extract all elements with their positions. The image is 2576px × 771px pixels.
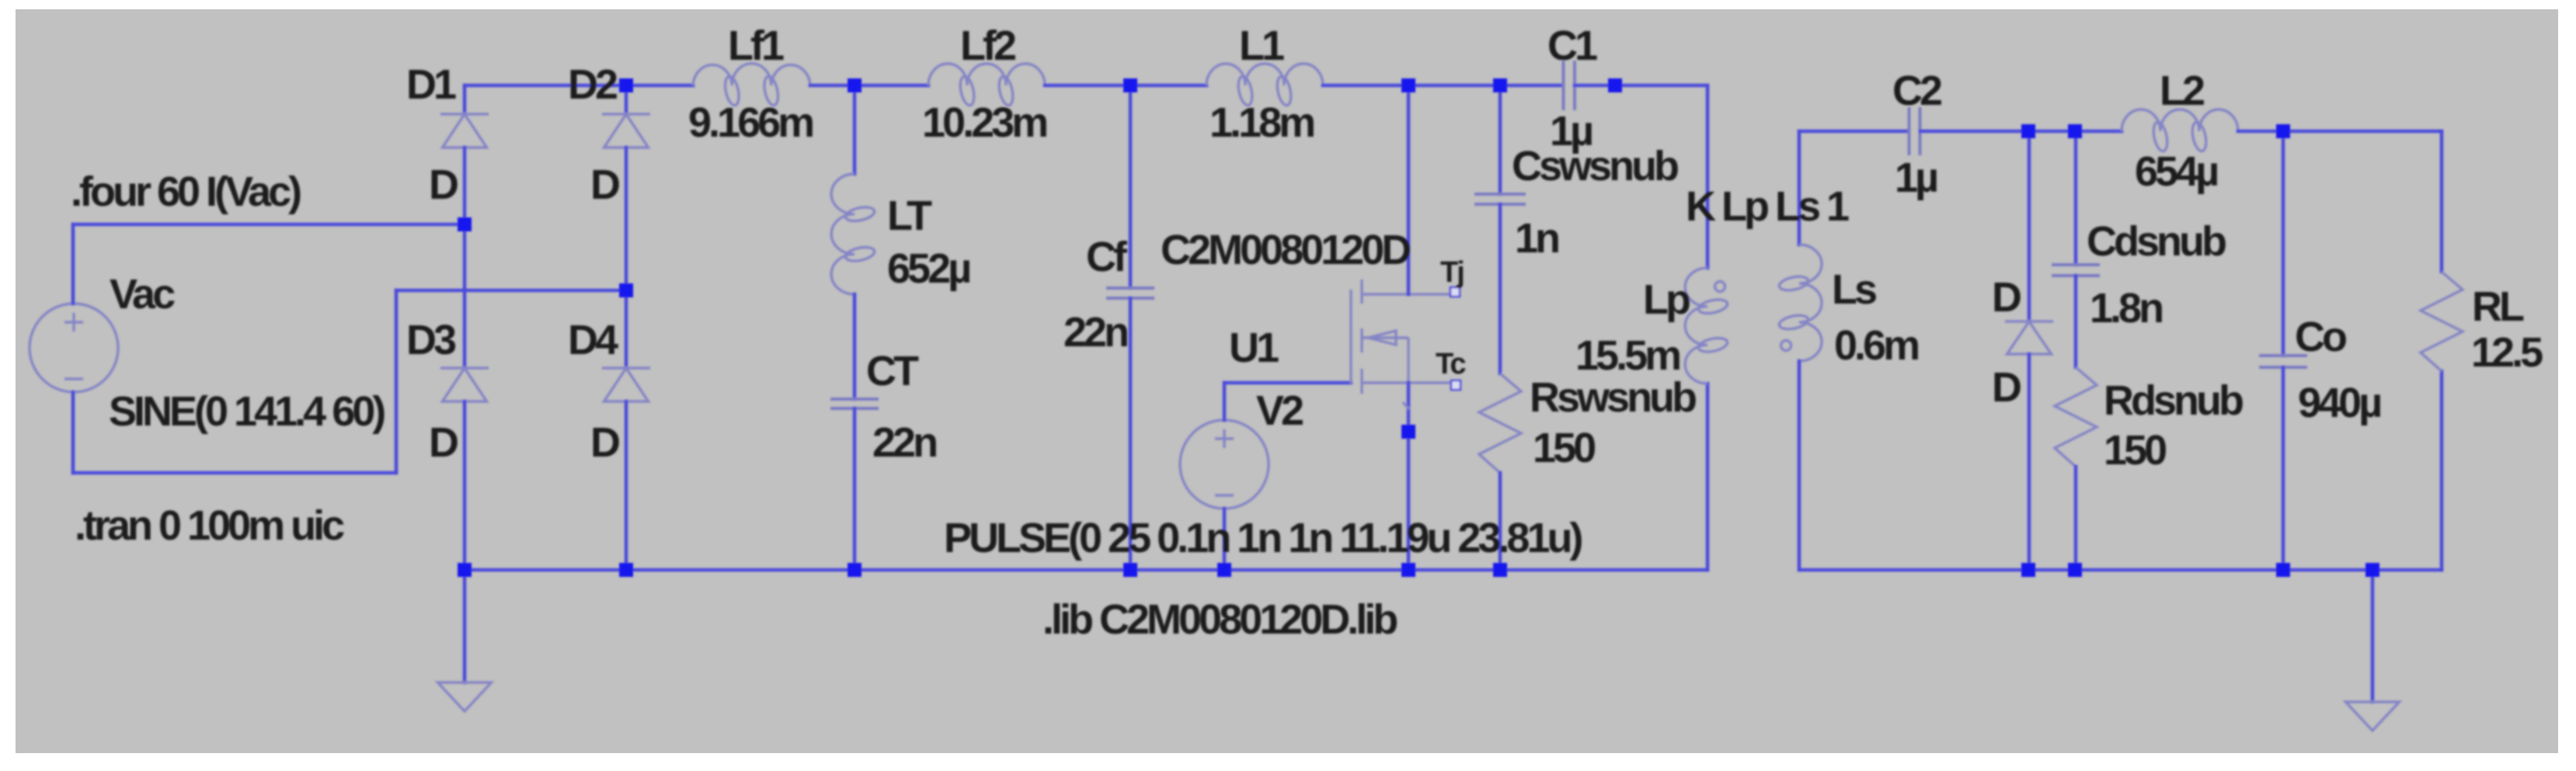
svg-text:PULSE(0 25 0.1n 1n 1n 11.19u 2: PULSE(0 25 0.1n 1n 1n 11.19u 23.81u) [944,515,1582,561]
svg-text:Cf: Cf [1086,234,1128,280]
svg-text:D4: D4 [568,317,618,363]
svg-text:Co: Co [2295,314,2346,360]
svg-text:C2M0080120D: C2M0080120D [1161,227,1410,273]
svg-text:.four 60 I(Vac): .four 60 I(Vac) [71,168,301,215]
svg-text:Cswsnub: Cswsnub [1512,143,1678,189]
svg-text:652µ: 652µ [887,245,969,292]
svg-text:D: D [429,161,458,208]
svg-text:D3: D3 [406,317,456,363]
svg-text:0.6m: 0.6m [1834,322,1918,369]
svg-text:15.5m: 15.5m [1575,332,1680,379]
svg-text:D2: D2 [568,61,617,108]
svg-text:1.18m: 1.18m [1210,99,1314,146]
svg-text:150: 150 [1533,425,1595,471]
svg-text:Cdsnub: Cdsnub [2087,218,2226,265]
svg-text:Ls: Ls [1832,266,1876,313]
svg-text:1µ: 1µ [1895,155,1937,201]
svg-text:D1: D1 [406,61,456,108]
svg-text:.tran 0 100m uic: .tran 0 100m uic [75,502,344,549]
svg-text:Rswsnub: Rswsnub [1530,374,1696,421]
svg-text:12.5: 12.5 [2471,329,2543,376]
svg-text:Vac: Vac [110,271,175,318]
svg-text:D: D [590,161,619,208]
svg-text:22n: 22n [872,419,936,466]
svg-text:L1: L1 [1239,23,1284,69]
svg-text:U1: U1 [1229,325,1279,371]
svg-text:LT: LT [887,193,932,239]
svg-text:CT: CT [866,348,919,394]
svg-text:.lib C2M0080120D.lib: .lib C2M0080120D.lib [1043,596,1397,643]
svg-text:150: 150 [2104,427,2166,474]
svg-text:D: D [590,419,619,466]
svg-text:9.166m: 9.166m [688,99,813,146]
svg-text:1µ: 1µ [1550,108,1592,155]
svg-text:L2: L2 [2160,68,2204,114]
svg-text:D: D [1992,274,2021,321]
svg-text:D: D [429,419,458,466]
svg-text:SINE(0 141.4 60): SINE(0 141.4 60) [109,388,385,435]
svg-text:654µ: 654µ [2135,148,2217,195]
svg-text:10.23m: 10.23m [922,99,1046,146]
svg-text:22n: 22n [1063,309,1127,356]
svg-text:Lp: Lp [1643,276,1690,323]
svg-text:Tc: Tc [1436,348,1466,380]
svg-text:Tj: Tj [1440,256,1464,289]
svg-text:1.8n: 1.8n [2090,285,2162,332]
svg-text:D: D [1992,364,2021,411]
svg-text:K Lp Ls 1: K Lp Ls 1 [1686,183,1849,230]
svg-text:Lf2: Lf2 [960,23,1015,69]
svg-text:V2: V2 [1256,387,1303,434]
svg-text:940µ: 940µ [2298,380,2380,426]
svg-text:Rdsnub: Rdsnub [2104,377,2243,424]
svg-text:C2: C2 [1892,68,1941,114]
svg-text:C1: C1 [1547,23,1597,69]
svg-text:1n: 1n [1515,215,1558,262]
svg-text:RL: RL [2472,283,2524,330]
svg-text:Lf1: Lf1 [728,23,784,69]
